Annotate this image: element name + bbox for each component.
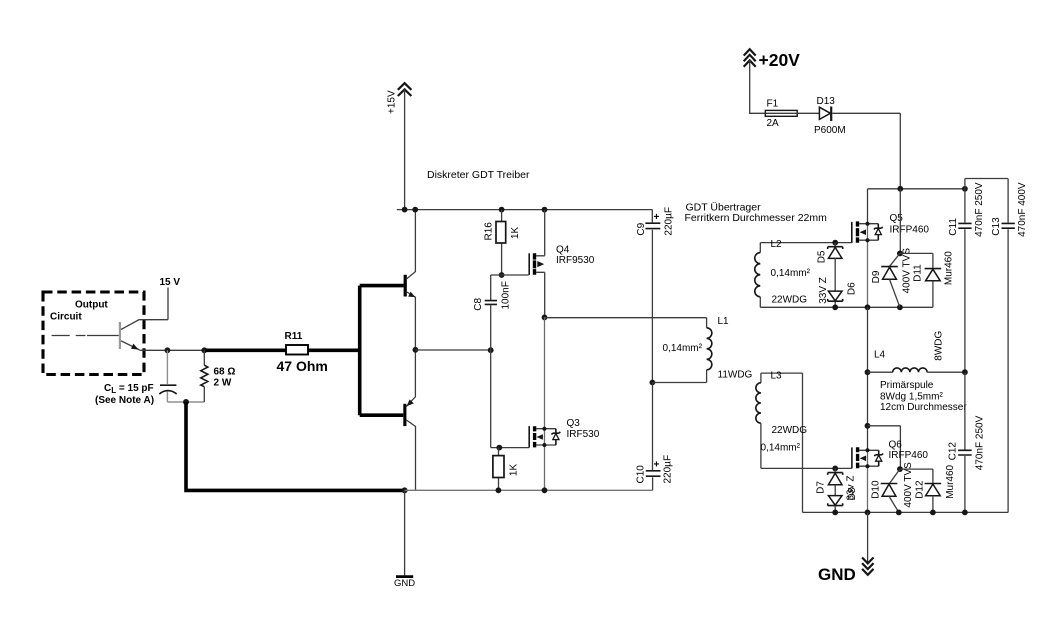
node emitter junction 1 — [165, 347, 171, 353]
capacitor C10 plates — [646, 471, 661, 476]
svg-text:0,14mm²: 0,14mm² — [663, 343, 703, 354]
wire CL to R68 bottom — [167, 401, 204, 403]
svg-text:100nF: 100nF — [501, 281, 512, 309]
svg-text:2 W: 2 W — [214, 377, 232, 388]
transistor Q2A collector — [406, 420, 415, 490]
ground symbol left stem — [404, 490, 406, 576]
capacitor CL lead top — [166, 350, 168, 384]
svg-text:68 Ω: 68 Ω — [214, 367, 236, 378]
svg-text:Ferritkern Durchmesser 22mm: Ferritkern Durchmesser 22mm — [685, 212, 828, 224]
node rail D13 — [897, 186, 903, 192]
zener D8 lead — [834, 506, 836, 512]
fuse F1 inner line — [765, 112, 797, 114]
node Q5 source tap — [866, 238, 870, 242]
node ground rail junction — [402, 487, 408, 493]
svg-text:IRF9530: IRF9530 — [556, 255, 595, 266]
resistor R1K leads — [498, 448, 500, 491]
tvs D9 triangle — [883, 267, 897, 279]
mosfet Q3 channel segments — [533, 426, 536, 447]
ground symbol left bar — [396, 575, 413, 578]
resistor R1K box — [493, 456, 504, 478]
diode D12 lead — [932, 496, 934, 513]
capacitor CL plate top — [160, 384, 176, 386]
svg-text:D6: D6 — [847, 282, 858, 295]
wire D13 to corner — [832, 113, 900, 189]
node rail Q4 — [542, 207, 548, 213]
fuse F1 — [765, 110, 797, 116]
wire emitter out — [141, 349, 205, 351]
inductor L4 lead left — [868, 371, 893, 373]
svg-text:L3: L3 — [771, 371, 783, 382]
wire +20V drop — [750, 60, 766, 113]
node TVS2 top — [897, 466, 903, 472]
svg-text:0,14mm²: 0,14mm² — [771, 268, 811, 279]
transistor Q1 output-circuit base bar — [119, 322, 121, 349]
node gnd rail C12 — [962, 510, 968, 516]
diode D13 cathode bar — [830, 107, 832, 122]
inductor L2 bottom lead — [759, 297, 761, 308]
wire +15V rail — [397, 209, 653, 211]
mosfet Q3 gate bar — [528, 426, 530, 448]
wire TVS node drop — [899, 189, 901, 254]
resistor R16 leads — [501, 210, 503, 275]
node CL-R68 bottom junction — [183, 399, 189, 405]
wire GND stem — [867, 512, 869, 563]
mosfet Q4 source lead — [536, 272, 545, 317]
svg-text:D7: D7 — [816, 481, 827, 494]
mosfet Q5 gate bar — [851, 222, 853, 243]
svg-text:D5: D5 — [817, 250, 828, 263]
mosfet Q5 vertical channel line — [867, 224, 869, 308]
node Q3 gate 1K tap — [496, 445, 502, 451]
svg-text:C8: C8 — [473, 297, 484, 310]
capacitor CL lead bottom — [166, 392, 168, 403]
wire base dashed lead — [52, 335, 119, 337]
mosfet Q4 drain lead — [536, 210, 545, 256]
node rail R16 — [499, 207, 505, 213]
node L2 gate tap — [832, 240, 838, 246]
transistor Q1A emitter — [407, 292, 416, 350]
svg-text:220µF: 220µF — [663, 455, 674, 484]
zener D5-D6 link — [834, 258, 836, 291]
transistor Q1 collector — [121, 320, 168, 330]
inductor L1 bottom lead — [652, 370, 706, 383]
node L3 gate tap — [832, 466, 838, 472]
inductor L2 coil — [755, 253, 761, 297]
svg-text:C9: C9 — [636, 222, 647, 235]
node Q5 drain tap — [866, 222, 870, 226]
tvs D10 bar — [881, 483, 898, 485]
transistor Q1 emitter — [121, 341, 141, 351]
tvs D10 triangle — [882, 484, 896, 496]
node rail Q5 source — [865, 304, 871, 310]
mosfet Q4 gate bar — [528, 253, 530, 275]
node R16 bottom — [499, 272, 505, 278]
inductor L2 top lead — [760, 243, 852, 253]
svg-text:+: + — [654, 460, 660, 471]
svg-text:L4: L4 — [874, 350, 886, 361]
wire thick R11 to bases — [308, 286, 404, 416]
wire mid node to C8 — [415, 349, 490, 351]
capacitor C9 lead bottom — [651, 230, 653, 383]
svg-text:Mur460: Mur460 — [944, 251, 955, 285]
svg-text:IRFP460: IRFP460 — [889, 450, 929, 461]
svg-text:12cm Durchmesser: 12cm Durchmesser — [880, 402, 967, 413]
wire switching column — [867, 307, 869, 450]
node rail +15V — [402, 207, 408, 213]
svg-text:2A: 2A — [767, 118, 780, 129]
svg-text:IRFP460: IRFP460 — [890, 224, 930, 235]
wire TVS to D11 — [900, 253, 933, 268]
svg-text:470nF 400V: 470nF 400V — [1017, 182, 1028, 237]
node Q6 drain tap — [866, 448, 870, 452]
svg-text:Diskreter GDT Treiber: Diskreter GDT Treiber — [427, 169, 530, 181]
capacitor C13 lead bottom — [1007, 229, 1009, 512]
diode D11 lead — [932, 281, 934, 308]
node Q6 source tap — [866, 464, 870, 468]
zener D7 lead — [834, 468, 836, 472]
wire 15V drop — [167, 288, 169, 320]
svg-text:Primärspule: Primärspule — [880, 380, 934, 391]
svg-text:Q4: Q4 — [556, 245, 570, 256]
resistor R68 zigzag — [201, 365, 208, 387]
node Q4 source — [542, 315, 548, 321]
mosfet Q6 vertical channel line — [867, 450, 869, 512]
transistor Q1A collector — [407, 210, 416, 279]
wire clamp top link — [868, 426, 901, 469]
svg-text:8WDG: 8WDG — [934, 330, 945, 360]
capacitor C11 C13 top bridge — [965, 179, 1008, 223]
zener D5 triangle — [828, 247, 842, 258]
mosfet Q5 source lead — [859, 239, 878, 241]
svg-text:Mur460: Mur460 — [945, 464, 956, 498]
svg-text:L2: L2 — [771, 239, 783, 250]
tvs D9 slant bottom — [890, 279, 900, 307]
node Q3 source — [542, 443, 546, 447]
wire TVS2 to D12 — [900, 469, 933, 483]
capacitor C8 plates — [485, 301, 497, 305]
wire thick drop to ground rail — [186, 402, 404, 490]
node gnd rail D8 — [832, 510, 838, 516]
mosfet Q6 body diode — [874, 450, 883, 466]
wire thick R11 feed — [206, 348, 287, 352]
node emitters mid junction — [413, 347, 419, 353]
mosfet Q5 drain lead — [859, 223, 878, 225]
inductor L3 bottom lead — [761, 423, 852, 468]
wire Q3 gate riser — [491, 447, 529, 449]
svg-text:11WDG: 11WDG — [718, 370, 753, 381]
zener D6 lead — [834, 302, 836, 308]
svg-text:22WDG: 22WDG — [772, 425, 808, 436]
transistor Q2A base bar — [403, 404, 406, 426]
svg-text:P600M: P600M — [814, 125, 846, 136]
mosfet Q6 drain lead — [859, 449, 878, 451]
svg-text:1K: 1K — [510, 226, 521, 239]
node L1 bottom junction — [650, 380, 656, 386]
zener D7 bar — [828, 473, 843, 475]
svg-text:+15V: +15V — [387, 90, 398, 114]
mosfet Q6 channel segments — [856, 447, 859, 468]
svg-text:Output: Output — [75, 300, 108, 311]
diode D12 triangle — [926, 484, 941, 496]
svg-text:1K: 1K — [509, 464, 520, 477]
zener D6 bar — [828, 299, 843, 301]
mosfet Q3 drain lead — [536, 428, 556, 430]
svg-text:Q6: Q6 — [889, 439, 903, 450]
transistor Q1A emitter arrow — [408, 292, 415, 298]
mosfet Q4 channel segments — [533, 253, 536, 274]
inductor L1 coil — [707, 328, 712, 370]
transistor Q2A emitter — [406, 350, 415, 407]
diode D11 bar — [925, 268, 942, 270]
power +20V chevron — [744, 49, 756, 67]
svg-text:C13: C13 — [991, 217, 1002, 236]
svg-text:(See Note A): (See Note A) — [95, 395, 154, 406]
zener D8 triangle — [828, 496, 842, 506]
mosfet Q5 body diode — [874, 224, 883, 241]
wire gate node Q4 — [491, 274, 529, 276]
svg-text:GND: GND — [818, 565, 856, 584]
svg-text:R16: R16 — [484, 222, 495, 241]
node gnd rail Q6 — [865, 510, 871, 516]
mosfet Q5 channel segments — [856, 221, 859, 242]
wire +20V rail right — [868, 188, 965, 190]
capacitor C9 plates — [645, 223, 660, 228]
capacitor C12 lead top — [964, 372, 966, 449]
inductor L3 coil — [756, 383, 761, 423]
capacitor C8 lead top — [490, 275, 492, 300]
svg-text:470nF 250V: 470nF 250V — [974, 182, 985, 237]
svg-text:L1: L1 — [718, 316, 730, 327]
node clamp tap Q6 — [865, 423, 871, 429]
svg-text:C12: C12 — [948, 442, 959, 461]
svg-text:+: + — [654, 212, 660, 223]
node R1K bottom — [496, 487, 502, 493]
zener D8 bar — [828, 503, 843, 505]
zener D6 triangle — [828, 291, 842, 301]
mosfet Q3 body diode — [552, 429, 561, 445]
diode D12 bar — [925, 483, 942, 485]
wire Q5 drain drop — [867, 189, 869, 224]
svg-text:400V TVS: 400V TVS — [902, 248, 913, 294]
svg-text:8Wdg 1,5mm²: 8Wdg 1,5mm² — [880, 392, 943, 403]
transistor Q1 emitter arrow — [131, 344, 139, 350]
capacitor C10 lead top — [652, 383, 654, 471]
power +15V chevron — [398, 83, 412, 96]
svg-text:IRF530: IRF530 — [567, 429, 600, 440]
wire ground rail thin — [405, 489, 653, 491]
svg-text:D10: D10 — [871, 480, 882, 499]
resistor R16 box — [496, 222, 506, 244]
svg-text:33v Z: 33v Z — [846, 475, 857, 500]
zener D7 triangle — [828, 473, 842, 484]
svg-text:220µF: 220µF — [664, 207, 675, 236]
ground GND chevron — [862, 558, 873, 575]
wire switch node to L1 — [545, 317, 707, 319]
svg-text:D13: D13 — [817, 96, 836, 107]
capacitor C9 lead top — [651, 210, 653, 223]
capacitor C12 lead bottom — [964, 456, 966, 512]
mosfet Q5 body arrow — [860, 229, 866, 235]
mosfet Q6 source lead — [859, 465, 878, 467]
inductor L4 lead right — [927, 371, 965, 373]
transistor Q2A emitter arrow — [407, 399, 414, 406]
mosfet Q3 source lead — [536, 444, 556, 446]
tvs D10 slant top — [890, 469, 900, 483]
capacitor C11 lead top — [964, 189, 966, 223]
svg-text:Q3: Q3 — [567, 418, 581, 429]
tvs D10 slant bottom — [889, 496, 899, 512]
mosfet Q6 gate bar — [851, 447, 853, 468]
zener D5 bar — [828, 247, 843, 249]
svg-text:0,14mm²: 0,14mm² — [761, 443, 801, 454]
node gnd rail D10 — [896, 510, 902, 516]
node emitter junction 2 — [201, 347, 207, 353]
node L4 right — [962, 369, 968, 375]
tvs D9 bar — [881, 266, 898, 268]
capacitor C12 plates — [958, 450, 972, 455]
node rail collector — [412, 207, 418, 213]
svg-text:470nF 250V: 470nF 250V — [974, 415, 985, 470]
zener D7-D8 link — [834, 485, 836, 496]
node rail C11 — [962, 186, 968, 192]
node rail D6 — [832, 304, 838, 310]
capacitor C13 plates — [1002, 223, 1015, 228]
mosfet Q6 body arrow — [860, 456, 866, 462]
wire fuse to D13 — [797, 112, 819, 114]
node gnd rail D12 — [930, 510, 936, 516]
dashed box Output Circuit — [43, 292, 144, 375]
node Q3 source rail — [542, 487, 548, 493]
svg-text:47 Ohm: 47 Ohm — [277, 358, 328, 374]
transistor Q1A base bar — [404, 275, 407, 297]
mosfet Q3 body arrow — [537, 434, 543, 440]
capacitor C11 lead bottom — [964, 229, 966, 372]
svg-text:D9: D9 — [871, 270, 882, 283]
mosfet Q4 body arrow — [537, 261, 544, 267]
diode D11 triangle — [926, 269, 941, 281]
wire secondary source rail — [760, 306, 933, 308]
resistor R68 leads — [203, 350, 205, 402]
svg-text:C11: C11 — [948, 218, 959, 236]
capacitor C8 lead bottom — [490, 305, 492, 447]
svg-text:D12: D12 — [915, 480, 926, 499]
node TVS top — [897, 251, 903, 257]
capacitor C10 lead bottom — [652, 477, 654, 490]
node L4 left — [865, 369, 871, 375]
resistor R11 box — [286, 345, 308, 355]
diode D13 triangle — [819, 107, 830, 119]
node C8 tap — [488, 347, 494, 353]
svg-text:R11: R11 — [285, 331, 303, 342]
zener D5 lead — [834, 243, 836, 247]
svg-text:Circuit: Circuit — [50, 312, 82, 323]
svg-text:+20V: +20V — [759, 50, 801, 70]
wire +15V drop — [404, 88, 406, 210]
capacitor CL plate bottom curved — [159, 391, 176, 394]
inductor L1 top lead — [706, 318, 708, 328]
inductor L4 coil — [893, 368, 927, 372]
tvs D9 slant top — [890, 253, 900, 266]
svg-text:22WDG: 22WDG — [772, 294, 808, 305]
svg-text:F1: F1 — [767, 99, 779, 110]
svg-text:D11: D11 — [913, 264, 924, 282]
capacitor C11 plates — [958, 223, 971, 228]
inductor L3 top lead — [761, 373, 803, 512]
svg-text:C10: C10 — [636, 465, 647, 484]
svg-text:GND: GND — [394, 578, 415, 589]
svg-text:Q5: Q5 — [890, 213, 904, 224]
wire bottom ground rail — [803, 511, 1009, 513]
node Q3 drain — [542, 427, 546, 431]
svg-text:15 V: 15 V — [160, 277, 181, 288]
node rail D9 — [897, 304, 903, 310]
mosfet Q3 vertical channel line — [544, 317, 546, 490]
